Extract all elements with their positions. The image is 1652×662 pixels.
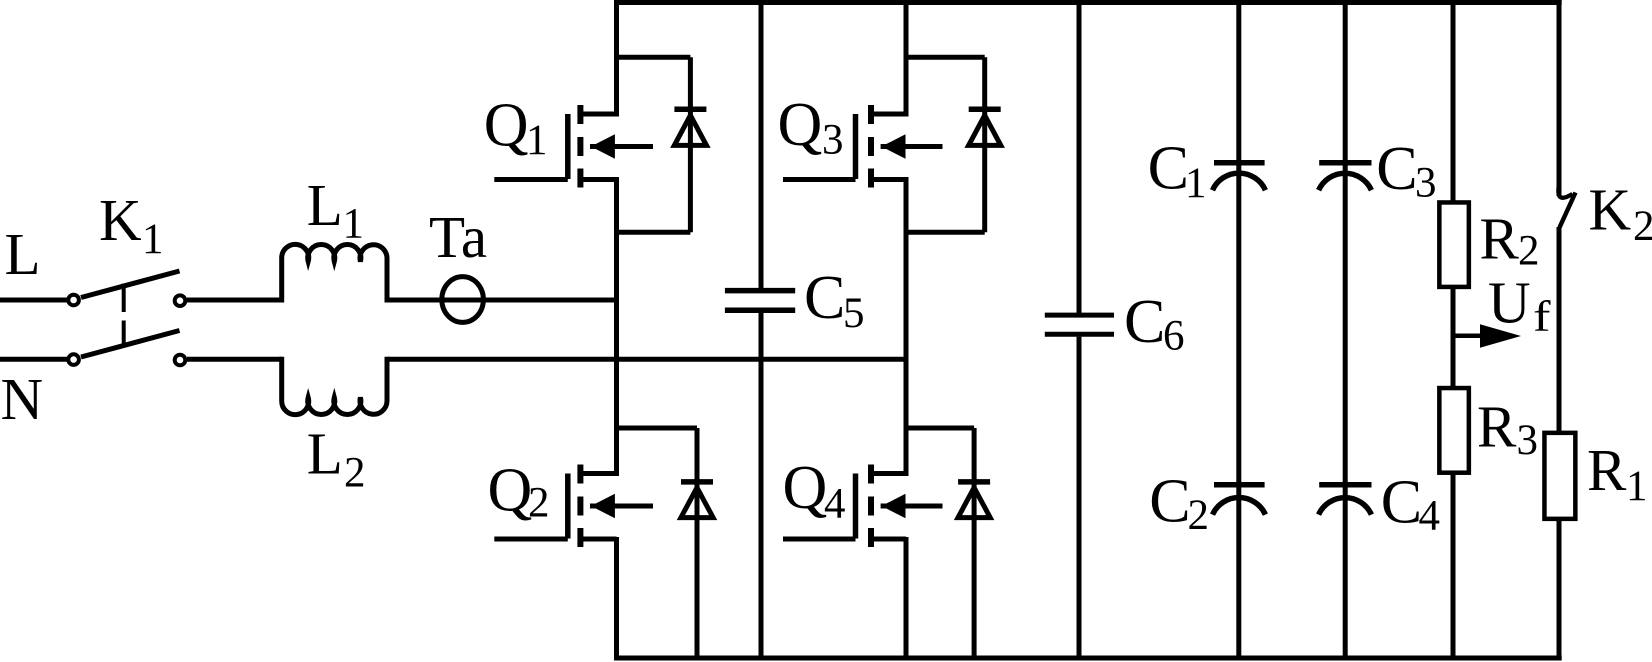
switch K1 mechanical link (dashed) [122, 284, 126, 346]
svg-text:C: C [1148, 135, 1189, 203]
svg-text:Q: Q [484, 92, 529, 160]
svg-text:U: U [1488, 269, 1531, 335]
wire N input [0, 357, 67, 362]
R2/R3 divider top lead [1451, 0, 1456, 202]
D3 triangle [969, 115, 1001, 145]
Q1 gate line [565, 114, 571, 179]
switch K1 pole1 blade [81, 271, 180, 298]
Q4 source bar [868, 528, 874, 547]
svg-text:L: L [307, 172, 343, 238]
R3 bottom lead [1451, 473, 1456, 661]
Q3 body arrow line [881, 144, 943, 149]
Q1 source lead [580, 177, 616, 182]
svg-text:1: 1 [142, 216, 164, 263]
Q2 source bar [577, 528, 583, 547]
svg-text:C: C [1124, 288, 1165, 356]
capacitor C5 top lead [759, 0, 764, 288]
wire K1 to L1 [187, 298, 282, 303]
svg-text:1: 1 [1185, 160, 1207, 207]
capacitor C4 curved plate [1319, 498, 1372, 515]
left bridge leg middle segment (source Q1 to drain Q2) [614, 177, 619, 476]
svg-text:C: C [1381, 468, 1422, 536]
svg-text:3: 3 [822, 117, 844, 164]
capacitor C5 bottom lead [759, 313, 764, 661]
Q4 body arrowhead [882, 494, 906, 518]
Q3 drain lead [871, 112, 906, 117]
R1 bottom lead [1557, 519, 1562, 661]
svg-text:2: 2 [1633, 203, 1652, 250]
svg-text:N: N [1, 366, 44, 432]
Q1 source bar [577, 169, 583, 188]
Q4 drain lead [871, 471, 906, 476]
Q1 body arrow line [590, 144, 653, 149]
svg-text:2: 2 [344, 449, 366, 496]
Q3 body arrowhead [882, 134, 906, 158]
left bridge leg lower segment (source Q2 to bus) [614, 537, 619, 660]
svg-text:5: 5 [843, 290, 865, 337]
Q1 body bar [577, 137, 583, 156]
Q4 source lead [871, 537, 906, 542]
svg-text:R: R [1587, 437, 1627, 503]
resistor R1 body [1544, 433, 1575, 519]
Q3 gate lead [783, 177, 856, 182]
D4 lead [972, 428, 977, 660]
inductor L2 [282, 357, 387, 415]
C3/C4 leg wire [1343, 0, 1348, 660]
right bridge leg upper segment (drain Q3) [904, 0, 909, 117]
svg-text:L: L [307, 421, 343, 487]
capacitor C2 flat plate [1214, 482, 1265, 488]
D2 triangle [681, 488, 713, 518]
D2 lead [695, 428, 700, 660]
svg-text:Ta: Ta [429, 204, 487, 270]
MOSFET Q3 [783, 105, 943, 188]
svg-text:4: 4 [824, 481, 846, 528]
D1 branch bottom wire [617, 230, 691, 235]
D4 branch top wire [906, 426, 974, 431]
svg-text:4: 4 [1419, 493, 1441, 540]
switch K1 pole2 blade [81, 331, 180, 358]
svg-text:2: 2 [528, 480, 550, 527]
svg-text:K: K [99, 187, 142, 253]
svg-text:3: 3 [1517, 417, 1539, 464]
Q2 drain bar [577, 465, 583, 484]
Q2 body arrowhead [591, 494, 615, 518]
D1 triangle [674, 115, 706, 145]
top DC bus [614, 0, 1562, 5]
svg-text:C: C [1376, 135, 1417, 203]
svg-text:2: 2 [1518, 228, 1540, 275]
Q4 gate line [853, 474, 859, 539]
Q4 body bar [868, 497, 874, 516]
svg-text:C: C [804, 264, 845, 332]
right bridge leg lower segment (source Q4 to bus) [904, 537, 909, 660]
D3 cathode bar [969, 107, 1001, 113]
capacitor C3 flat plate [1319, 160, 1371, 166]
Q2 gate line [565, 474, 571, 539]
wire L1 to bridge left leg (through Ta) [387, 298, 617, 303]
Q3 body bar [868, 137, 874, 156]
D3 lead [982, 57, 987, 232]
body diode D1 of Q1 [617, 57, 707, 232]
D2 cathode bar [681, 479, 713, 485]
Q4 drain bar [868, 465, 874, 484]
D2 branch top wire [617, 426, 698, 431]
Q2 gate lead [494, 537, 568, 542]
svg-text:R: R [1480, 206, 1520, 272]
D1 cathode bar [674, 107, 706, 113]
Q2 body arrow line [590, 504, 653, 509]
C1/C2 leg wire [1236, 0, 1241, 660]
Q3 source lead [871, 177, 906, 182]
switch K1 pole1 left terminal [68, 295, 79, 306]
capacitor C1 curved plate [1213, 173, 1266, 190]
svg-text:1: 1 [526, 117, 548, 164]
switch K1 pole2 right terminal [175, 355, 186, 366]
svg-text:R: R [1477, 393, 1517, 459]
capacitor C3 curved plate [1319, 173, 1372, 190]
svg-text:f: f [1533, 294, 1551, 341]
wire L2 to bridge right leg (mid rail) [387, 357, 906, 362]
svg-text:3: 3 [1415, 160, 1437, 207]
Q3 gate line [853, 114, 859, 179]
K2 to R1 lead [1557, 227, 1562, 432]
inductor L1 [282, 244, 387, 302]
R2 to R3 lead [1451, 287, 1456, 388]
capacitor C6 top lead [1077, 0, 1082, 314]
Q3 drain bar [868, 105, 874, 124]
Q1 gate lead [494, 177, 568, 182]
bottom DC bus [614, 656, 1562, 661]
current transformer Ta [442, 277, 484, 323]
capacitor C2 curved plate [1213, 497, 1266, 514]
capacitor C4 flat plate [1319, 482, 1371, 488]
Q4 gate lead [783, 537, 856, 542]
svg-text:L: L [5, 221, 41, 287]
resistor R3 body [1439, 388, 1469, 473]
switch K2 blade [1560, 193, 1576, 228]
capacitor C6 bottom lead [1077, 337, 1082, 660]
D3 branch bottom wire [906, 230, 985, 235]
MOSFET Q2 [494, 465, 653, 548]
MOSFET Q4 [783, 465, 943, 548]
capacitor C1 flat plate [1214, 160, 1265, 166]
right bridge leg middle segment (source Q3 to drain Q4) [904, 177, 909, 476]
capacitor C6 plates [1045, 315, 1114, 334]
body diode D4 of Q4 [906, 428, 990, 660]
Q2 source lead [580, 537, 616, 542]
wire L input [0, 298, 67, 303]
MOSFET Q1 [494, 105, 653, 188]
D1 branch top wire [617, 55, 691, 60]
svg-text:K: K [1589, 177, 1632, 243]
body diode D2 of Q2 [617, 428, 714, 660]
capacitor C5 plates [725, 291, 795, 311]
Q2 body bar [577, 497, 583, 516]
Q4 body arrow line [881, 504, 943, 509]
svg-text:Q: Q [488, 457, 533, 525]
Uf arrowhead [1480, 324, 1521, 347]
svg-text:Q: Q [783, 454, 828, 522]
D1 lead [688, 57, 693, 232]
D3 branch top wire [906, 55, 985, 60]
body diode D3 of Q3 [906, 57, 1001, 232]
Q1 drain bar [577, 105, 583, 124]
left bridge leg upper segment (drain Q1) [614, 0, 619, 117]
svg-text:1: 1 [1626, 463, 1648, 510]
svg-text:Q: Q [778, 91, 823, 159]
resistor R2 body [1439, 202, 1469, 286]
D4 triangle [958, 488, 990, 518]
svg-text:6: 6 [1163, 313, 1185, 360]
switch K1 pole2 left terminal [68, 354, 79, 365]
right output leg upper lead [1557, 0, 1562, 196]
Q2 drain lead [580, 471, 616, 476]
svg-text:C: C [1149, 467, 1190, 535]
svg-text:1: 1 [343, 201, 365, 248]
svg-text:2: 2 [1188, 492, 1210, 539]
Q1 drain lead [580, 112, 616, 117]
switch K2 upper contact hook [1558, 185, 1572, 198]
D4 cathode bar [958, 479, 990, 485]
Q1 body arrowhead [591, 134, 615, 158]
switch K1 pole1 right terminal [175, 295, 186, 306]
wire K1 to L2 [187, 357, 282, 362]
Uf tap wire [1453, 334, 1486, 339]
Q3 source bar [868, 169, 874, 188]
